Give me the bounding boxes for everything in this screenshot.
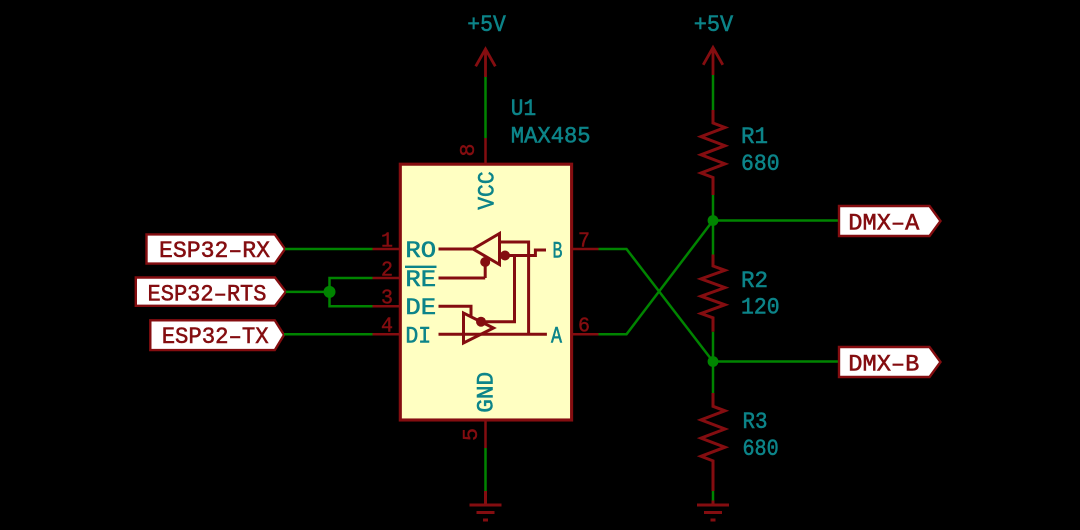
wire U1 pin 7 to node B (diagonal): [599, 249, 714, 362]
svg-text:ESP32–RTS: ESP32–RTS: [148, 281, 267, 307]
wire R3 to ground: [712, 491, 715, 501]
wire node A to R2: [712, 221, 715, 255]
svg-text:GND: GND: [474, 372, 500, 413]
wire pin 5 to ground: [484, 448, 487, 491]
svg-text:ESP32–TX: ESP32–TX: [162, 324, 269, 350]
IC U1 MAX485 body: [400, 96, 590, 420]
pin 7 B: [553, 230, 599, 264]
wire node B to R3: [712, 362, 715, 394]
ground (under U1 pin 5): [470, 491, 502, 520]
global label ESP32-RX: [147, 234, 286, 264]
wire node A to DMX-A label: [713, 219, 840, 222]
svg-text:+5V: +5V: [694, 12, 734, 38]
pin 6 A: [551, 316, 599, 350]
svg-text:2: 2: [381, 259, 393, 282]
svg-text:ESP32–RX: ESP32–RX: [159, 238, 270, 264]
pin 8 VCC (top): [458, 138, 501, 210]
junction RTS node: [324, 286, 336, 298]
svg-text:680: 680: [743, 436, 779, 462]
svg-text:DE: DE: [405, 295, 436, 321]
wire junction to pin 2: [330, 278, 373, 292]
wire U1 pin 6 to node A (diagonal): [599, 221, 714, 335]
global label ESP32-TX: [150, 320, 284, 350]
svg-text:DMX–A: DMX–A: [848, 210, 919, 236]
power symbol +5V (left, over U1 pin 8): [467, 12, 506, 77]
ground (right, under R3): [697, 501, 729, 521]
power symbol +5V (right, over R1): [694, 12, 734, 75]
svg-text:R1: R1: [741, 124, 768, 150]
svg-text:680: 680: [741, 151, 780, 177]
svg-text:+5V: +5V: [467, 12, 506, 38]
resistor R2: [701, 255, 780, 332]
svg-text:MAX485: MAX485: [511, 124, 591, 150]
pin 3 DE: [373, 288, 437, 322]
junction node A: [708, 215, 719, 226]
pin 5 GND (bottom): [461, 372, 500, 448]
wire node B to DMX-B label: [713, 360, 840, 363]
U1 internal receiver buffer: [439, 234, 547, 335]
svg-text:U1: U1: [511, 96, 536, 122]
svg-text:A: A: [551, 324, 562, 350]
global label DMX-A: [839, 206, 941, 236]
svg-text:VCC: VCC: [475, 171, 501, 210]
global label DMX-B: [839, 347, 941, 377]
U1 internal driver buffer: [439, 306, 547, 343]
resistor R1: [701, 110, 780, 195]
svg-text:RE: RE: [405, 267, 436, 293]
junction node B: [708, 356, 719, 367]
pin 4 DI: [373, 316, 432, 350]
wire R2 to node B: [712, 332, 715, 362]
resistor R3: [701, 393, 779, 491]
svg-text:4: 4: [381, 316, 393, 339]
wire ESP32-TX to pin 4: [284, 333, 373, 336]
svg-text:DMX–B: DMX–B: [848, 351, 919, 377]
svg-text:3: 3: [381, 288, 393, 311]
svg-text:120: 120: [741, 295, 780, 321]
svg-text:R2: R2: [741, 268, 768, 294]
wire from +5V to R1: [712, 75, 715, 110]
svg-text:1: 1: [381, 230, 393, 253]
pin 1 RO: [373, 230, 437, 264]
svg-text:6: 6: [578, 316, 590, 339]
global label ESP32-RTS: [136, 278, 286, 308]
svg-text:R3: R3: [743, 409, 768, 435]
wire ESP32-RX to pin 1: [285, 248, 373, 251]
pin 2 ~RE: [373, 259, 437, 293]
svg-text:RO: RO: [405, 238, 436, 264]
wire R1 to node A: [712, 195, 715, 221]
svg-text:B: B: [553, 238, 563, 264]
wire junction to pin 3: [330, 292, 373, 306]
wire from +5V to U1 pin 8: [484, 77, 487, 138]
wire ESP32-RTS to junction: [286, 291, 330, 294]
svg-text:7: 7: [578, 230, 590, 253]
svg-text:5: 5: [461, 428, 484, 441]
svg-text:DI: DI: [405, 323, 431, 349]
svg-text:8: 8: [458, 144, 481, 157]
